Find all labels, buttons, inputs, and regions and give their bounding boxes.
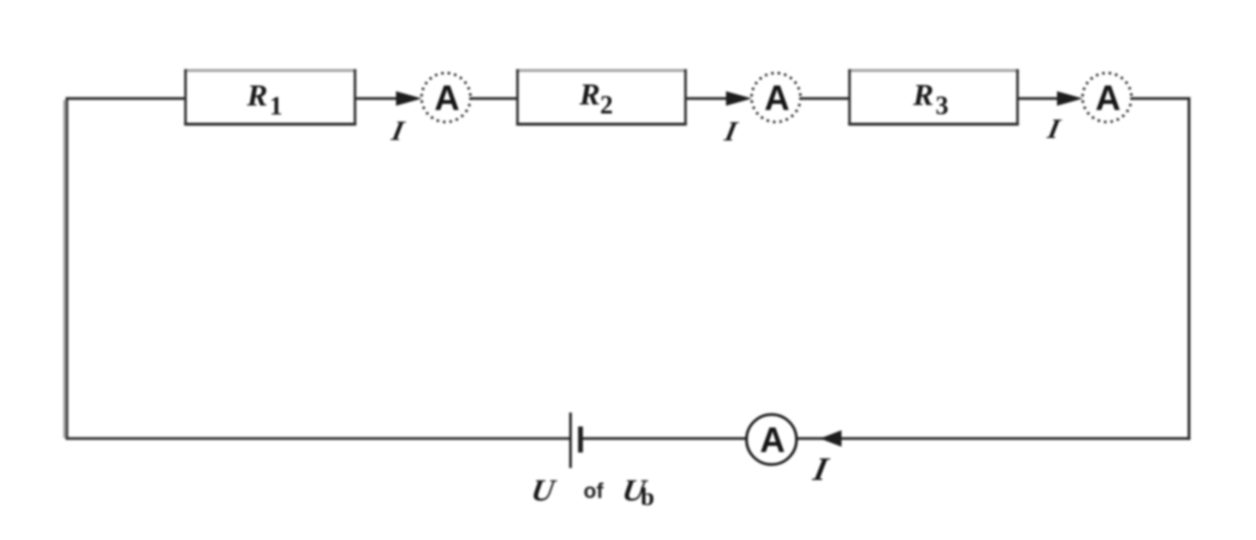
ammeter A3 (dashed circle) xyxy=(1083,73,1132,122)
current arrow into ammeter A3 xyxy=(1057,91,1083,105)
resistor R1 xyxy=(184,69,356,125)
svg-text:1: 1 xyxy=(270,92,283,121)
wire: R1 to ammeter A1 xyxy=(355,97,400,100)
ammeter A2 (dashed circle) xyxy=(752,73,801,122)
wire: right vertical xyxy=(1188,97,1191,440)
svg-text:R: R xyxy=(246,78,268,113)
wire: ammeter A1 to R2 xyxy=(470,97,518,100)
svg-text:R: R xyxy=(579,77,601,112)
current arrow into ammeter A4 (pointing left) xyxy=(820,430,842,447)
resistor R3 xyxy=(848,69,1019,125)
ammeter A4 (solid circle) xyxy=(747,415,797,465)
wire: top-left horizontal xyxy=(66,97,186,100)
wire: bottom middle segment (battery to ammeter A4) xyxy=(581,437,773,440)
current arrow into ammeter A2 xyxy=(726,91,752,105)
ammeter A1 (dashed circle) xyxy=(422,73,471,122)
label R1 xyxy=(246,78,283,121)
label I (after R2) xyxy=(721,117,740,148)
label R3 xyxy=(912,77,949,120)
label U xyxy=(529,473,559,508)
label I (after R1) xyxy=(388,116,407,147)
current arrow into ammeter A1 xyxy=(396,91,422,105)
label I (after R3) xyxy=(1044,114,1063,145)
svg-text:of: of xyxy=(584,480,605,503)
wire: bottom right segment xyxy=(772,437,1190,440)
wire: left vertical xyxy=(66,97,69,440)
svg-text:A: A xyxy=(434,79,459,118)
battery U: short thick plate xyxy=(578,427,583,453)
label I (bottom) xyxy=(809,451,832,488)
label Ub xyxy=(620,473,655,511)
svg-text:R: R xyxy=(912,77,934,112)
wire: R2 to ammeter A2 xyxy=(686,97,730,100)
svg-text:3: 3 xyxy=(936,91,949,120)
wire: ammeter A3 to top-right corner xyxy=(1131,97,1190,100)
svg-text:A: A xyxy=(1095,79,1120,118)
wire: bottom left segment xyxy=(66,437,570,440)
svg-text:A: A xyxy=(764,79,789,118)
battery U: long plate xyxy=(569,413,572,469)
svg-text:2: 2 xyxy=(600,91,613,120)
svg-text:A: A xyxy=(760,421,785,460)
resistor R2 xyxy=(516,69,687,125)
label R2 xyxy=(579,77,614,120)
wire: ammeter A2 to R3 xyxy=(800,97,850,100)
wire: R3 to ammeter A3 xyxy=(1018,97,1062,100)
wire: left vertical gray fringe xyxy=(63,100,65,438)
svg-text:b: b xyxy=(641,484,655,511)
